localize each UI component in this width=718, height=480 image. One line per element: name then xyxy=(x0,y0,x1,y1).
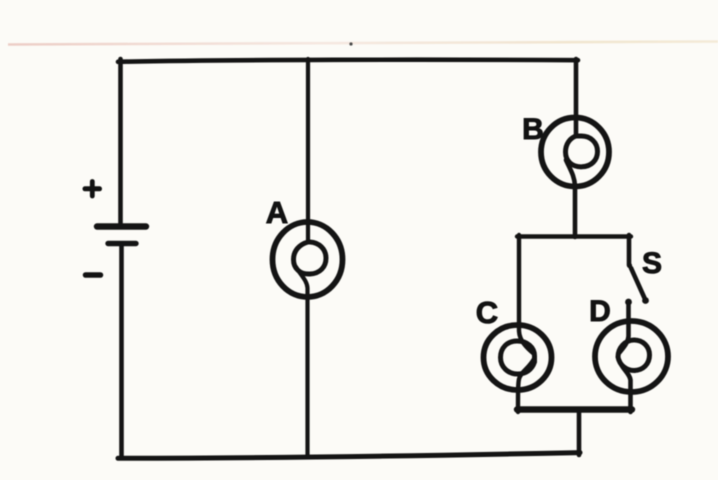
wire middle vertical upper (top wire to lamp A) xyxy=(306,59,310,242)
lamp A xyxy=(273,222,343,297)
wire left branch vertical (box top to lamp C) xyxy=(519,235,534,354)
wire exit vertical (box bottom to bottom wire) xyxy=(577,411,582,455)
wire parallel box top bar xyxy=(517,234,631,238)
wire middle vertical lower (lamp A to bottom wire) xyxy=(296,267,308,457)
wire parallel box bottom bar xyxy=(517,406,632,412)
wire left vertical upper (top wire to battery) xyxy=(118,59,123,223)
battery negative plate xyxy=(108,241,136,246)
lamp B xyxy=(541,118,609,187)
svg-text:B: B xyxy=(522,113,544,146)
wire right vertical upper (top wire to lamp B) xyxy=(574,59,579,136)
wire below lamp C to box bottom bar xyxy=(518,358,535,412)
switch S xyxy=(625,263,649,306)
svg-text:S: S xyxy=(642,247,662,280)
wire switch feed vertical (box top to switch) xyxy=(627,235,632,265)
svg-text:A: A xyxy=(266,195,288,230)
battery xyxy=(97,227,146,244)
wire right vertical lower (lamp B to parallel box) xyxy=(566,160,575,237)
battery positive plate xyxy=(97,223,146,229)
wire lamp D top lead xyxy=(620,303,629,353)
wire below lamp D to box bottom bar xyxy=(619,360,631,412)
wire left vertical lower (battery to bottom wire) xyxy=(119,246,124,457)
label - (battery negative) xyxy=(86,272,101,278)
wire top horizontal xyxy=(118,60,578,62)
lamp D xyxy=(595,321,668,392)
svg-text:D: D xyxy=(589,295,611,328)
lamp C xyxy=(484,325,552,390)
label + (battery positive) xyxy=(85,182,100,197)
wire bottom horizontal xyxy=(118,453,580,459)
svg-text:C: C xyxy=(476,295,498,330)
